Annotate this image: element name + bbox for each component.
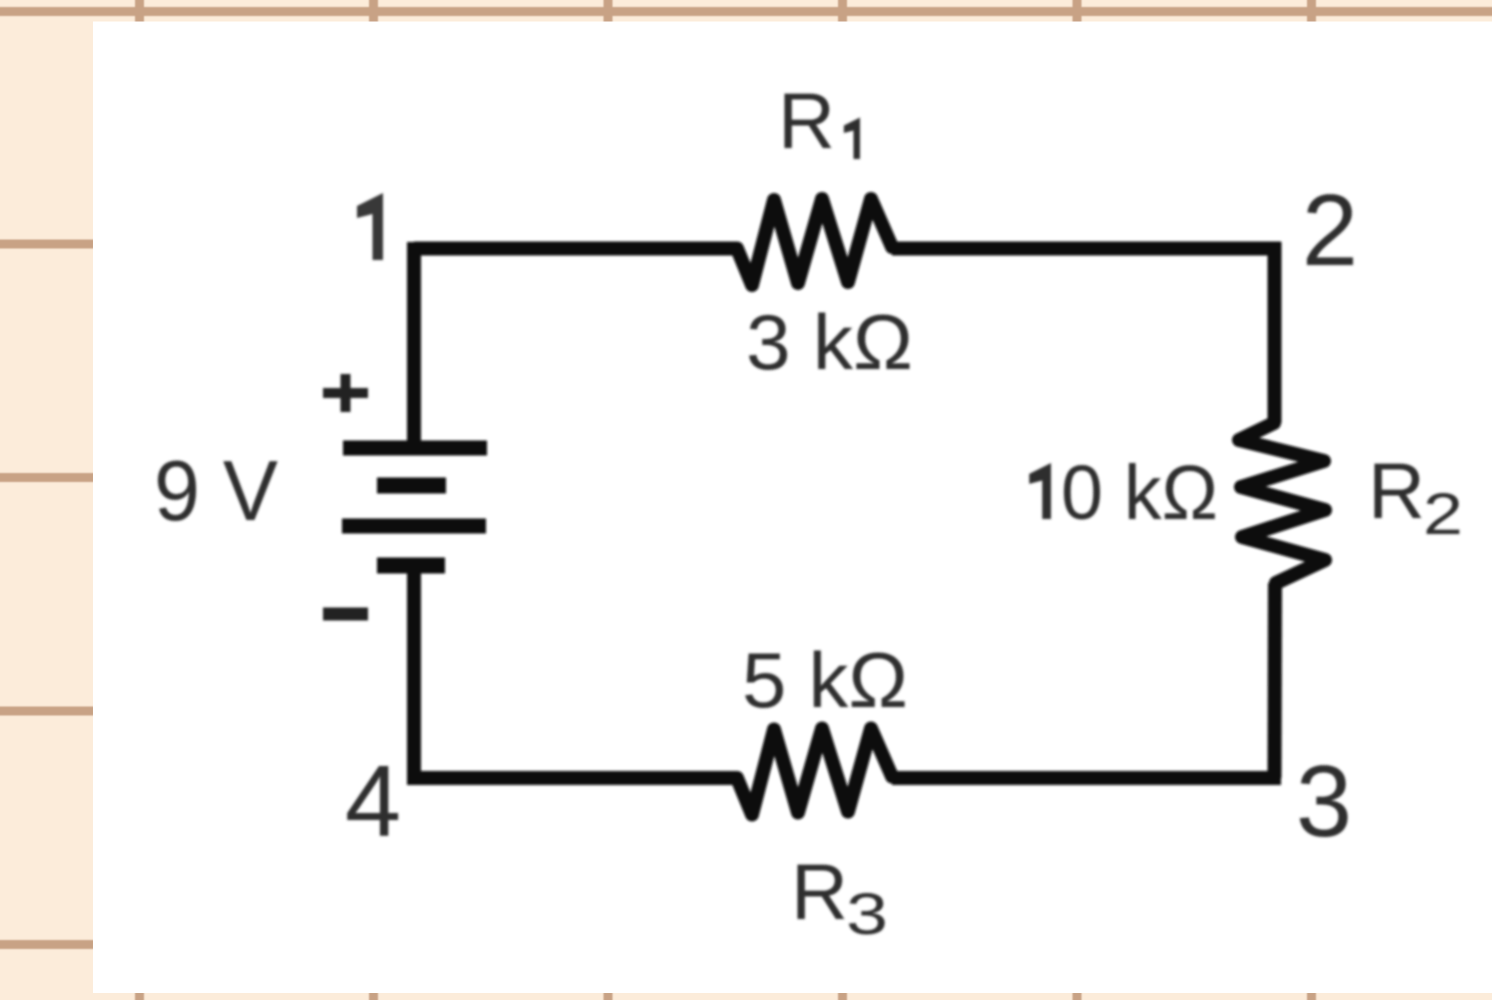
battery minus sign — [323, 608, 368, 621]
battery short plate 4 (-) — [377, 558, 445, 574]
wire node2 down to R2 — [1268, 242, 1282, 423]
wire R1 to node2 corner — [892, 242, 1281, 256]
wire R3 to node4 corner — [414, 772, 737, 779]
resistor R1 zigzag 3 kOhm — [737, 199, 892, 285]
wire node1 corner to R1 — [414, 242, 737, 249]
grid horizontal line left 2 — [0, 240, 94, 249]
svg-text:2: 2 — [1302, 175, 1358, 287]
svg-text:5 kΩ: 5 kΩ — [742, 636, 908, 724]
grid horizontal line top — [0, 7, 1492, 16]
svg-text:0 kΩ: 0 kΩ — [1061, 450, 1218, 536]
svg-text:3: 3 — [1296, 746, 1352, 858]
battery plus sign — [323, 374, 368, 412]
resistor R2 zigzag 10 kOhm — [1239, 423, 1325, 583]
battery long plate 1 (+) — [343, 441, 487, 456]
wire R2 to node3 corner — [1268, 583, 1283, 778]
battery 9 V — [342, 448, 487, 566]
battery short plate 2 — [377, 478, 446, 494]
grid horizontal line left 5 — [0, 940, 94, 949]
svg-text:R: R — [778, 76, 835, 165]
wire node1 down to battery plus terminal — [407, 249, 421, 449]
resistor R3 zigzag 5 kOhm — [737, 729, 892, 815]
svg-text:3: 3 — [846, 882, 888, 947]
wire node4 up to battery minus terminal — [407, 566, 421, 779]
grid vertical line stubs top — [135, 0, 144, 23]
R2 value 10 kOhm — [1029, 463, 1051, 519]
svg-text:9 V: 9 V — [154, 444, 278, 539]
battery long plate 3 — [342, 519, 486, 534]
grid horizontal line left 3 — [0, 473, 94, 482]
svg-text:R: R — [791, 847, 848, 936]
wire node3 to R3 — [892, 771, 1281, 785]
svg-text:3 kΩ: 3 kΩ — [746, 298, 913, 386]
svg-text:4: 4 — [345, 746, 401, 858]
grid horizontal line left 4 — [0, 707, 94, 716]
node 1 label — [357, 193, 383, 260]
svg-text:2: 2 — [1423, 482, 1463, 547]
grid vertical line stubs bottom — [135, 992, 144, 1000]
svg-text:R: R — [1368, 446, 1425, 535]
